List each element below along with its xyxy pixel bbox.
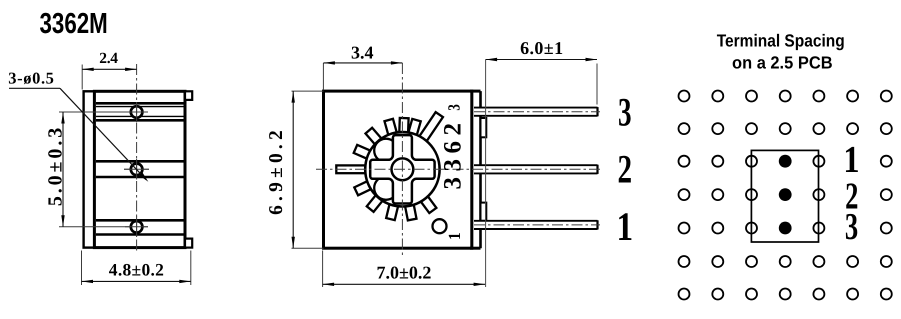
title 3362M [40, 8, 108, 40]
svg-text:6.9±0.2: 6.9±0.2 [266, 126, 287, 215]
rotor lobe lower [374, 176, 398, 200]
dimension 5.0±0.3 text [44, 125, 66, 206]
svg-text:3362M: 3362M [40, 8, 108, 40]
svg-text:1: 1 [616, 204, 633, 249]
leader line 3-ø0.5 [9, 88, 148, 182]
top view tab upper [481, 118, 487, 137]
dimension 6.0±1 [486, 58, 597, 287]
pin 2 [474, 165, 598, 174]
rotor long tooth [417, 112, 443, 144]
svg-text:3362: 3362 [440, 118, 467, 190]
svg-text:Terminal Spacing: Terminal Spacing [717, 30, 845, 50]
dimension 3.4 [323, 61, 402, 89]
rotor teeth [354, 118, 437, 220]
svg-text:on a 2.5 PCB: on a 2.5 PCB [732, 53, 833, 73]
dimension 6.9±0.2 text [266, 126, 287, 215]
svg-text:4.8±0.2: 4.8±0.2 [109, 260, 164, 280]
svg-text:3.4: 3.4 [351, 42, 374, 62]
dimension 6.9±0.2 [292, 91, 324, 248]
svg-text:1: 1 [843, 139, 859, 181]
pcb outline rectangle [751, 150, 818, 242]
pcb terminal pads [779, 155, 792, 235]
rotor center hole [392, 158, 414, 180]
terminal hole 1 [125, 102, 148, 122]
rotor lobe upper [374, 139, 398, 163]
pin 1 small label [445, 232, 464, 240]
pcb label 3 [845, 206, 858, 248]
svg-text:3-ø0.5: 3-ø0.5 [8, 69, 54, 88]
rotor disc [365, 132, 439, 206]
pin number 1 [616, 204, 633, 249]
rotor cross slot [370, 135, 434, 203]
dimension 3.4 text [351, 42, 374, 62]
pin number 2 [618, 147, 633, 192]
top view right wall [470, 91, 481, 248]
pcb title line 1 [717, 30, 845, 50]
side view centerline [136, 64, 138, 253]
pcb label 1 [843, 139, 859, 181]
svg-text:2.4: 2.4 [99, 50, 118, 67]
dimension 2.4 [82, 65, 136, 90]
top view centerline horizontal [316, 168, 601, 170]
pcb title line 2 [732, 53, 833, 73]
top view tab lower [481, 203, 487, 221]
pcb hole grid [679, 91, 892, 300]
side view terminal strips [96, 103, 184, 234]
svg-text:2: 2 [618, 147, 633, 192]
dimension 7.0±0.2 text [377, 262, 432, 282]
pin 3 small label [445, 104, 464, 110]
dimension 4.8±0.2 text [109, 260, 164, 280]
top view body [324, 91, 472, 248]
dimension 6.0±1 text [520, 38, 563, 58]
terminal hole crosshair 2 [124, 168, 149, 170]
terminal hole crosshair 3 [59, 226, 148, 228]
pin 1 [474, 220, 600, 229]
side view notch top-right [185, 91, 192, 100]
side view flange [84, 91, 95, 247]
terminal hole crosshair 1 [59, 111, 148, 113]
pin number 3 [618, 90, 632, 135]
svg-text:1: 1 [445, 232, 464, 240]
dimension 4.8±0.2 [82, 251, 191, 286]
label 3-ø0.5 [8, 69, 54, 88]
side view notch bottom-right [185, 239, 192, 248]
terminal hole 3 [125, 217, 148, 238]
svg-text:3: 3 [618, 90, 632, 135]
svg-text:3: 3 [445, 104, 464, 110]
terminal hole 2 [124, 159, 149, 180]
pin 3 [474, 107, 600, 116]
svg-text:6.0±1: 6.0±1 [520, 38, 563, 58]
top view centerline vertical [401, 63, 403, 257]
svg-text:3: 3 [845, 206, 858, 248]
body marking 3362 [440, 118, 467, 190]
pcb label 2 [845, 176, 858, 218]
dimension 5.0±0.3 [61, 112, 64, 227]
rotor index circle [433, 219, 447, 233]
dimension 7.0±0.2 [323, 251, 486, 288]
dimension 2.4 text [99, 50, 118, 67]
svg-text:7.0±0.2: 7.0±0.2 [377, 262, 432, 282]
rotor slot arm left [336, 165, 366, 173]
side view body [94, 91, 185, 247]
